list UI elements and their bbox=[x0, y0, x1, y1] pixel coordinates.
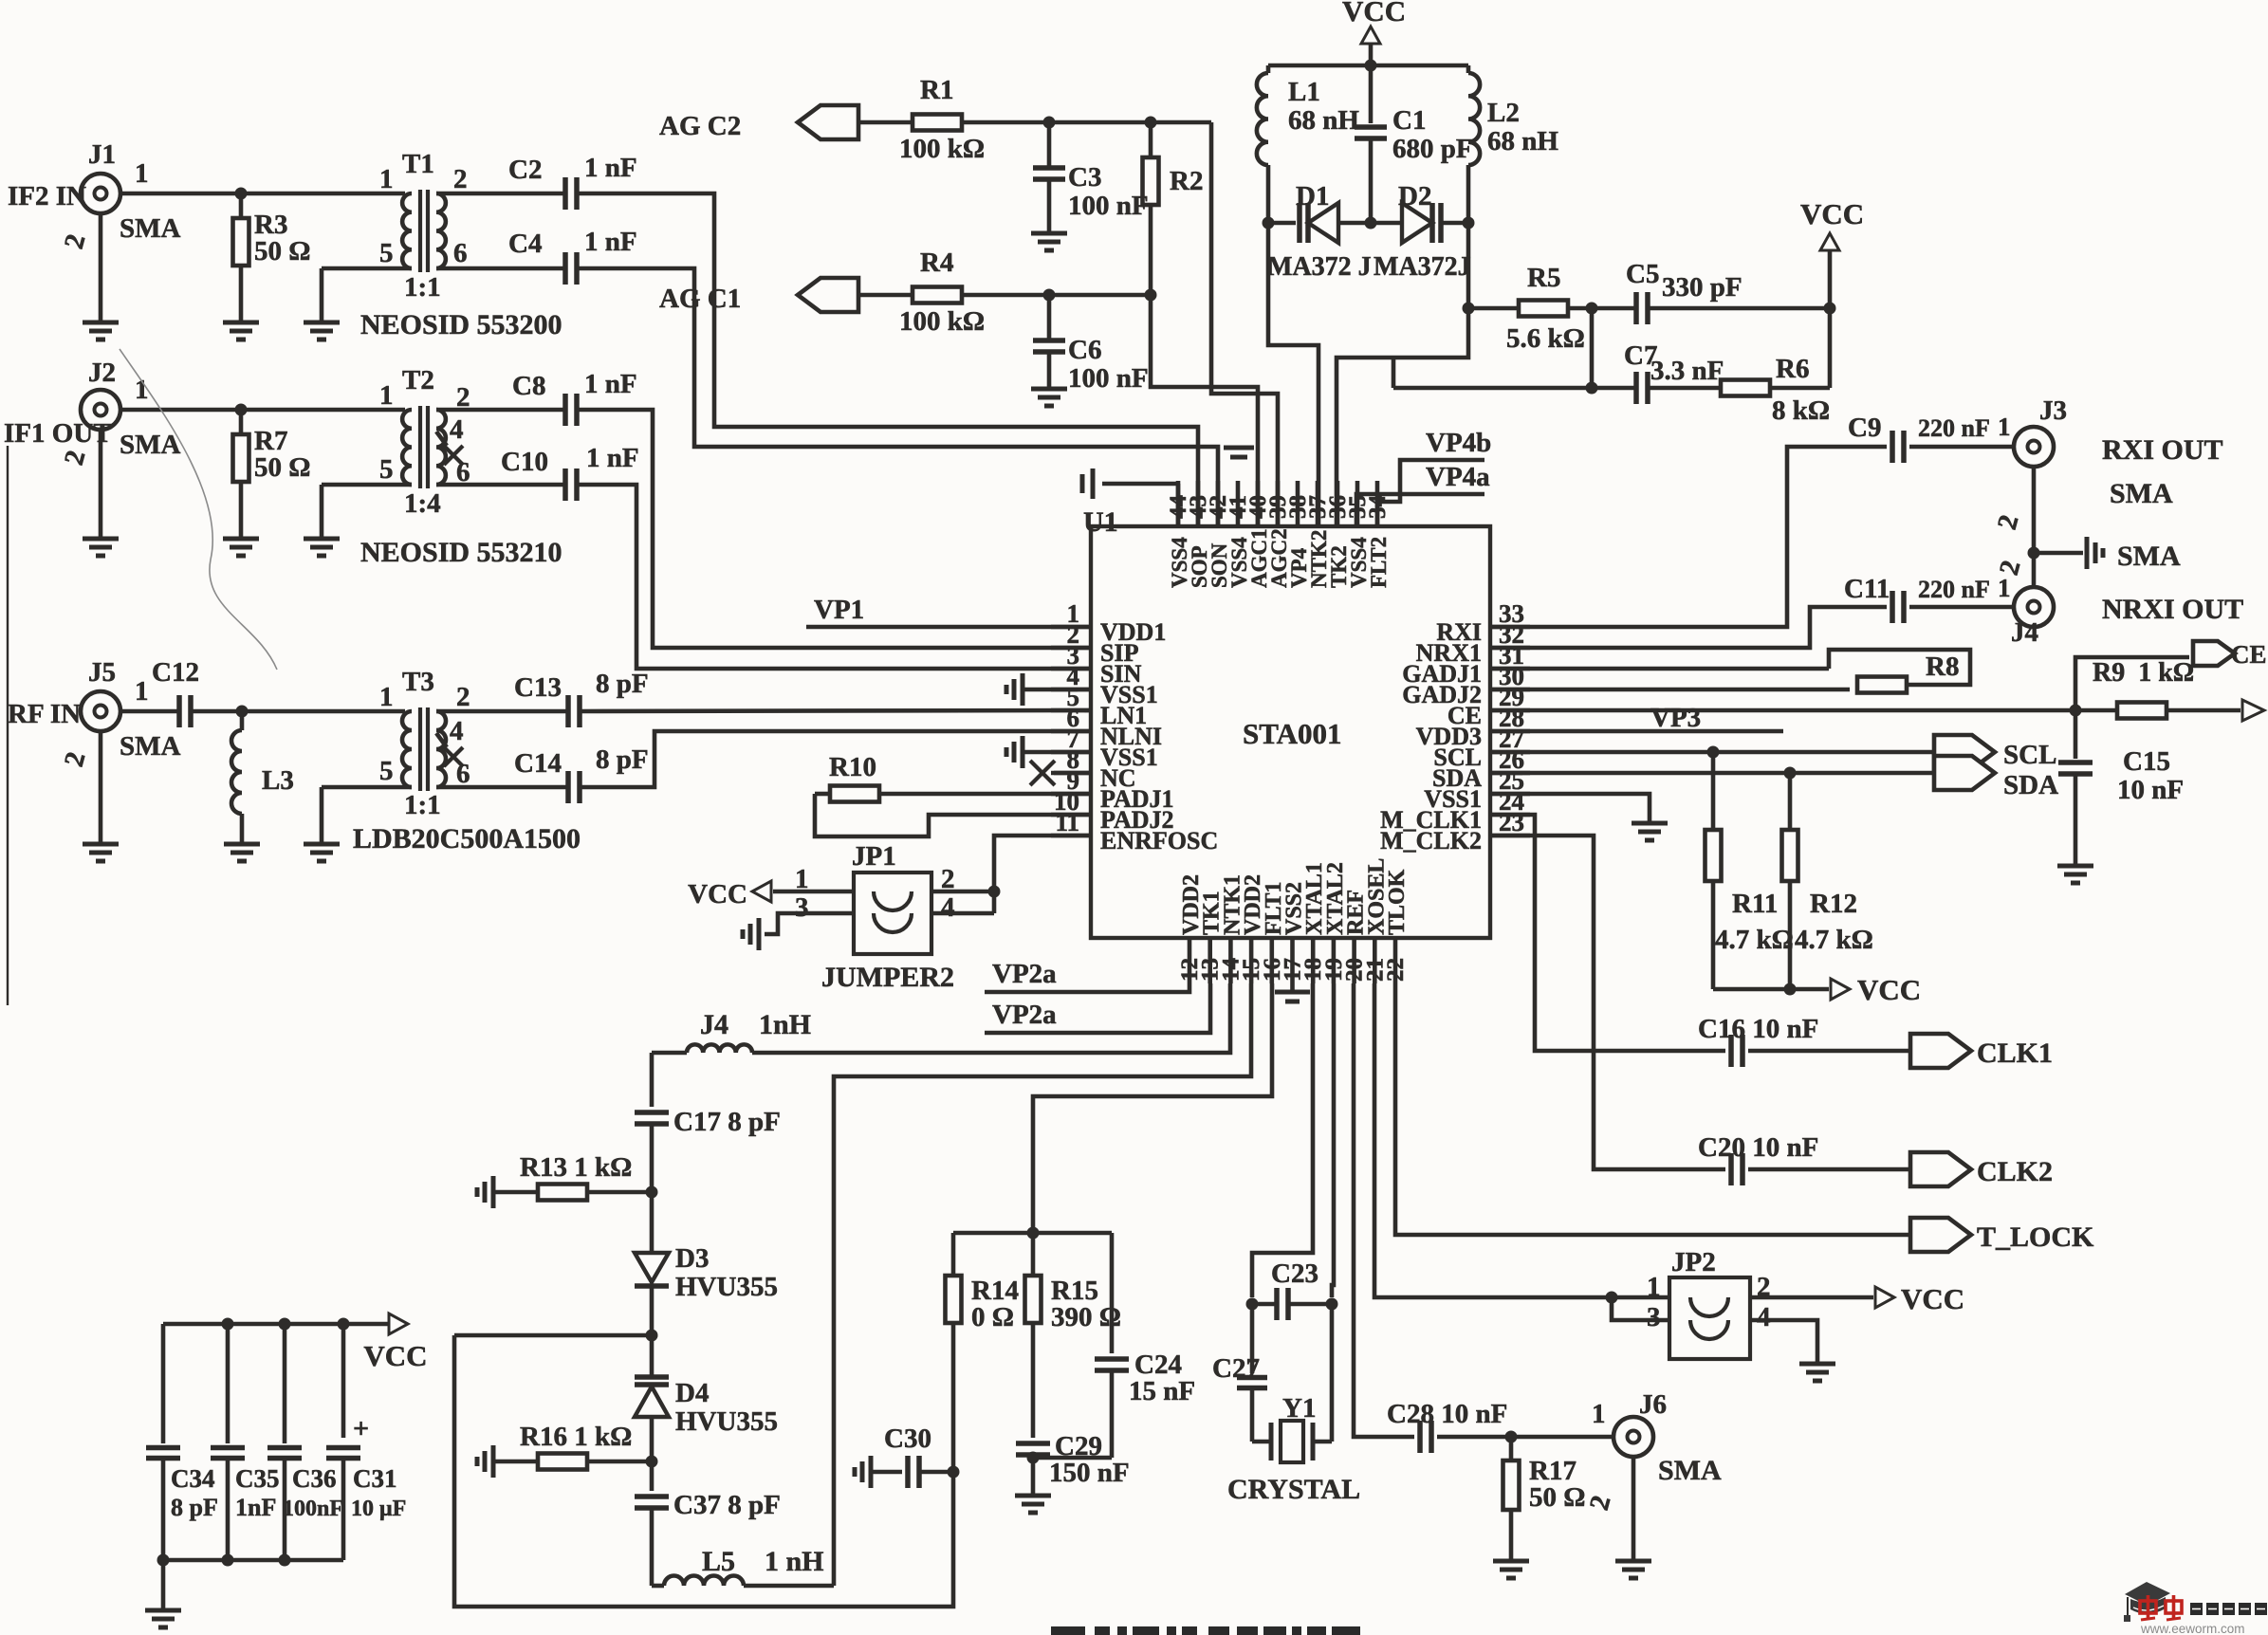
svg-text:www.eeworm.com: www.eeworm.com bbox=[2140, 1622, 2245, 1635]
wire bbox=[1909, 445, 2014, 450]
svg-text:JP1: JP1 bbox=[852, 841, 896, 872]
wire bbox=[436, 483, 565, 487]
U1 right pins 33-23 bbox=[1380, 599, 1530, 854]
svg-text:L2: L2 bbox=[1487, 98, 1520, 128]
svg-text:VCC: VCC bbox=[1342, 0, 1406, 28]
svg-text:L1: L1 bbox=[1288, 77, 1320, 107]
svg-text:2: 2 bbox=[453, 164, 468, 194]
svg-text:R5: R5 bbox=[1527, 263, 1560, 293]
svg-text:SMA: SMA bbox=[1658, 1455, 1722, 1486]
wire bbox=[322, 485, 412, 529]
diode D4 (HVU355 varactor) bbox=[635, 1335, 778, 1461]
svg-text:C1: C1 bbox=[1392, 105, 1426, 136]
wire bbox=[815, 794, 1091, 836]
jumper JP1 bbox=[795, 841, 955, 993]
resistor R14 (0 ohm) bbox=[946, 1233, 1019, 1472]
svg-text:1: 1 bbox=[379, 380, 394, 411]
wire bbox=[157, 1554, 344, 1567]
scan artifact curve bbox=[120, 349, 277, 670]
svg-text:J4: J4 bbox=[700, 1009, 728, 1040]
svg-text:220 nF: 220 nF bbox=[1918, 414, 1990, 442]
svg-text:L3: L3 bbox=[262, 765, 294, 796]
wire bbox=[1392, 358, 1396, 388]
svg-text:SMA: SMA bbox=[2117, 541, 2181, 572]
ground bbox=[743, 918, 759, 950]
svg-text:23: 23 bbox=[1499, 808, 1524, 836]
svg-text:FLT2: FLT2 bbox=[1367, 537, 1391, 588]
resistor R12 (4.7 k) bbox=[1782, 773, 1873, 989]
svg-text:100 kΩ: 100 kΩ bbox=[899, 134, 985, 164]
wire bbox=[191, 706, 405, 718]
wire bbox=[1268, 223, 1318, 526]
VCC arrow bbox=[1875, 1282, 1964, 1315]
resistor R8 bbox=[1490, 650, 1970, 693]
wire bbox=[1437, 1399, 1613, 1443]
small cap symbol above pin 41 bbox=[1224, 448, 1254, 457]
svg-text:4: 4 bbox=[450, 414, 464, 445]
svg-text:150 nF: 150 nF bbox=[1049, 1458, 1130, 1488]
svg-text:8 pF: 8 pF bbox=[596, 669, 649, 699]
svg-text:10 μF: 10 μF bbox=[351, 1497, 406, 1521]
capacitor C4 (1 nF) bbox=[508, 227, 637, 285]
wire NRX1 to C11 bbox=[1490, 607, 1887, 648]
VCC arrow bbox=[363, 1314, 427, 1372]
svg-text:3: 3 bbox=[1647, 1302, 1661, 1332]
svg-text:50 Ω: 50 Ω bbox=[1529, 1482, 1585, 1513]
svg-text:D4: D4 bbox=[675, 1378, 709, 1408]
svg-text:RXI OUT: RXI OUT bbox=[2102, 434, 2223, 466]
wire REF to C28 bbox=[1354, 983, 1414, 1437]
svg-text:R8: R8 bbox=[1926, 652, 1959, 682]
wire RXI to C9 bbox=[1490, 447, 1887, 627]
capacitor C34 (8 pF) bbox=[146, 1324, 218, 1560]
svg-text:5: 5 bbox=[379, 454, 394, 485]
ground bbox=[1799, 1354, 1835, 1381]
svg-text:MA372 J: MA372 J bbox=[1267, 252, 1372, 282]
svg-text:1nF: 1nF bbox=[235, 1494, 276, 1521]
ground bbox=[224, 835, 260, 861]
svg-text:R2: R2 bbox=[1170, 166, 1203, 196]
diode D1 (MA372J varactor) bbox=[1263, 181, 1372, 282]
wire SDA row bbox=[1490, 767, 1934, 780]
svg-text:C10: C10 bbox=[501, 447, 548, 477]
svg-text:IF2 IN: IF2 IN bbox=[8, 181, 86, 211]
svg-text:VCC: VCC bbox=[688, 879, 747, 909]
svg-text:C16 10 nF: C16 10 nF bbox=[1698, 1014, 1818, 1044]
svg-text:VP2a: VP2a bbox=[992, 959, 1057, 989]
capacitor C31 (10 uF, polarized) bbox=[326, 1324, 406, 1560]
ground bbox=[223, 529, 259, 556]
wire bbox=[1748, 1049, 1910, 1054]
wire bbox=[1632, 1457, 1636, 1552]
connector T_LOCK bbox=[1910, 1218, 2094, 1253]
wire bbox=[2167, 700, 2264, 721]
no-connect X on T3 pin 4 bbox=[436, 733, 463, 766]
svg-text:330 pF: 330 pF bbox=[1662, 272, 1742, 303]
svg-text:R13 1 kΩ: R13 1 kΩ bbox=[520, 1152, 632, 1183]
wire bbox=[161, 1560, 166, 1601]
svg-text:VP4a: VP4a bbox=[1426, 462, 1490, 492]
svg-text:C4: C4 bbox=[508, 229, 542, 259]
capacitor C2 (1 nF) bbox=[508, 153, 637, 210]
capacitor C20 (10 nF) bbox=[1698, 1132, 1818, 1185]
capacitor C16 (10 nF) bbox=[1698, 1014, 1818, 1067]
ground at pin 4 bbox=[1006, 673, 1091, 706]
ground at pin 25 bbox=[1490, 794, 1668, 840]
capacitor C24 (15 nF) bbox=[1095, 1233, 1195, 1458]
svg-text:SMA: SMA bbox=[120, 430, 181, 460]
wire XTAL2 branch bbox=[1332, 983, 1334, 1297]
svg-text:8 kΩ: 8 kΩ bbox=[1772, 395, 1830, 426]
inductor J4 (1 nH) bbox=[652, 983, 1230, 1053]
svg-text:AG C1: AG C1 bbox=[659, 284, 741, 314]
svg-text:4: 4 bbox=[450, 716, 464, 746]
wire M_CLK1 to C16 bbox=[1490, 815, 1725, 1051]
resistor R10 bbox=[815, 752, 1091, 802]
capacitor C15 (10 nF) bbox=[2058, 710, 2184, 856]
capacitor C29 (150 nF) bbox=[1016, 1431, 1130, 1488]
wire bbox=[962, 289, 1157, 302]
caption (clipped) bbox=[1051, 1626, 1360, 1635]
ground bbox=[2034, 537, 2103, 569]
svg-text:C14: C14 bbox=[514, 748, 562, 779]
svg-text:1: 1 bbox=[1647, 1272, 1661, 1302]
svg-text:VCC: VCC bbox=[1857, 973, 1921, 1006]
U1 bottom pins 12-22 bbox=[1177, 858, 1410, 983]
svg-text:1: 1 bbox=[1592, 1399, 1606, 1429]
connector J6 (SMA) bbox=[1584, 1389, 1722, 1514]
wire bbox=[953, 1227, 1112, 1240]
svg-text:1:4: 1:4 bbox=[404, 488, 441, 519]
svg-text:6: 6 bbox=[453, 238, 468, 268]
capacitor C9 (220 nF) bbox=[1848, 413, 2011, 463]
wire bbox=[322, 268, 412, 313]
svg-text:SMA: SMA bbox=[2110, 478, 2173, 509]
svg-text:4: 4 bbox=[941, 892, 955, 923]
svg-text:M_CLK2: M_CLK2 bbox=[1380, 827, 1482, 854]
svg-text:68 nH: 68 nH bbox=[1288, 105, 1359, 136]
ground bbox=[2057, 856, 2093, 883]
svg-text:C27: C27 bbox=[1212, 1353, 1260, 1384]
resistor R9 (1 k) bbox=[2093, 658, 2194, 719]
ground bbox=[1031, 379, 1067, 406]
wire M_CLK2 to C20 bbox=[1490, 836, 1725, 1169]
wire SCL row bbox=[1490, 746, 1934, 759]
capacitor C7 (3.3 nF) bbox=[1624, 340, 1724, 404]
svg-text:10 nF: 10 nF bbox=[2117, 775, 2184, 805]
capacitor C23 bbox=[1246, 1258, 1338, 1320]
svg-text:J5: J5 bbox=[88, 657, 116, 688]
svg-text:220 nF: 220 nF bbox=[1918, 576, 1990, 603]
svg-text:C9: C9 bbox=[1848, 413, 1881, 443]
svg-text:50 Ω: 50 Ω bbox=[254, 452, 310, 483]
connector J5 (SMA, RF IN) bbox=[8, 657, 181, 835]
ground bbox=[304, 309, 562, 340]
svg-text:T1: T1 bbox=[402, 149, 434, 179]
wire FLT1 branch bbox=[1033, 983, 1272, 1233]
capacitor C36 (100 nF) bbox=[267, 1324, 343, 1560]
svg-text:C12: C12 bbox=[152, 657, 199, 688]
svg-text:T_LOCK: T_LOCK bbox=[1977, 1222, 2094, 1253]
U1 top pins 44-34 bbox=[1166, 481, 1391, 588]
svg-text:J6: J6 bbox=[1639, 1389, 1667, 1420]
svg-text:C35: C35 bbox=[235, 1464, 280, 1493]
capacitor C27 bbox=[1212, 1304, 1267, 1442]
svg-text:100 nF: 100 nF bbox=[1068, 363, 1149, 394]
node VP1 bbox=[806, 595, 1091, 627]
wire bbox=[1648, 303, 1836, 315]
svg-text:VCC: VCC bbox=[1901, 1282, 1964, 1315]
svg-text:R9 1 kΩ: R9 1 kΩ bbox=[2093, 658, 2194, 688]
jumper JP2 bbox=[1647, 1247, 1771, 1359]
wire bbox=[1750, 1320, 1817, 1354]
wire bbox=[436, 709, 567, 714]
wire bbox=[581, 710, 1091, 711]
wire bbox=[1909, 541, 2181, 607]
wire bbox=[1268, 60, 1468, 72]
svg-text:+: + bbox=[353, 1413, 369, 1444]
transformer T1 bbox=[379, 149, 468, 303]
svg-text:3.3 nF: 3.3 nF bbox=[1650, 356, 1724, 386]
svg-text:CRYSTAL: CRYSTAL bbox=[1227, 1474, 1360, 1505]
inductor L1 (68 nH) bbox=[1257, 65, 1360, 223]
wire bbox=[436, 192, 565, 196]
wire bbox=[1748, 1167, 1910, 1172]
svg-text:100 kΩ: 100 kΩ bbox=[899, 306, 985, 337]
wire bbox=[436, 408, 565, 413]
resistor R2 bbox=[1143, 122, 1204, 295]
svg-text:R16 1 kΩ: R16 1 kΩ bbox=[520, 1422, 632, 1452]
svg-text:1 nH: 1 nH bbox=[765, 1546, 824, 1577]
svg-text:1 nF: 1 nF bbox=[584, 227, 637, 257]
resistor R16 (1 k) bbox=[477, 1422, 658, 1478]
svg-text:STA001: STA001 bbox=[1243, 717, 1342, 750]
svg-text:15 nF: 15 nF bbox=[1129, 1376, 1195, 1406]
svg-text:1: 1 bbox=[135, 676, 149, 707]
svg-text:11: 11 bbox=[1055, 808, 1079, 836]
svg-text:D3: D3 bbox=[675, 1243, 709, 1274]
svg-text:IF1 OUT: IF1 OUT bbox=[4, 418, 112, 449]
svg-text:8 pF: 8 pF bbox=[596, 744, 649, 775]
svg-text:C13: C13 bbox=[514, 672, 562, 703]
svg-text:1nH: 1nH bbox=[759, 1009, 811, 1040]
wire bbox=[1337, 223, 1475, 526]
wire bbox=[650, 1053, 655, 1107]
svg-text:2: 2 bbox=[456, 682, 470, 712]
capacitor C28 (10 nF) bbox=[1387, 1399, 1507, 1453]
svg-text:4: 4 bbox=[1757, 1302, 1771, 1332]
svg-text:100 nF: 100 nF bbox=[1068, 191, 1149, 221]
ground bbox=[304, 529, 562, 568]
connector CE bbox=[2075, 640, 2267, 710]
svg-text:JP2: JP2 bbox=[1671, 1247, 1716, 1277]
VCC arrow left bbox=[688, 879, 854, 909]
svg-text:C3: C3 bbox=[1068, 162, 1101, 193]
svg-text:R12: R12 bbox=[1810, 889, 1857, 919]
svg-text:5: 5 bbox=[379, 238, 394, 268]
wire bbox=[577, 268, 1218, 526]
svg-text:ENRFOSC: ENRFOSC bbox=[1100, 827, 1218, 854]
svg-text:NRXI OUT: NRXI OUT bbox=[2102, 594, 2243, 625]
wire big loop bbox=[454, 1335, 953, 1607]
wire bbox=[1568, 303, 1635, 389]
VCC arrow bbox=[1831, 973, 1921, 1006]
svg-text:CLK2: CLK2 bbox=[1977, 1156, 2053, 1187]
node VP2a bbox=[985, 959, 1189, 992]
svg-text:SMA: SMA bbox=[120, 213, 181, 244]
wire bbox=[1211, 122, 1278, 526]
capacitor C14 (8 pF) bbox=[514, 744, 649, 803]
capacitor C35 (1 nF) bbox=[211, 1324, 280, 1560]
wire bbox=[1648, 386, 1721, 391]
VCC rail bbox=[1342, 0, 1406, 65]
capacitor C11 (220 nF) bbox=[1844, 574, 2011, 623]
svg-text:T3: T3 bbox=[402, 667, 434, 697]
resistor R5 (5.6 k) bbox=[1468, 263, 1585, 354]
diode D2 (MA372J varactor) bbox=[1365, 181, 1475, 282]
svg-text:VP1: VP1 bbox=[814, 595, 864, 625]
wire bbox=[577, 410, 1091, 648]
VCC arrow bbox=[1800, 197, 1864, 308]
svg-text:R4: R4 bbox=[920, 248, 953, 278]
wire bbox=[931, 891, 994, 913]
capacitor C12 bbox=[152, 657, 199, 727]
ground bbox=[83, 529, 119, 556]
svg-text:5: 5 bbox=[379, 756, 394, 786]
connector CLK2 bbox=[1910, 1152, 2053, 1187]
svg-text:C31: C31 bbox=[353, 1464, 397, 1493]
wire bbox=[581, 731, 1091, 787]
wire pin 11 to JP1 bbox=[988, 836, 1092, 898]
wire bbox=[1750, 1295, 1873, 1300]
resistor R3 bbox=[233, 193, 311, 313]
U1 left pins 1-11 bbox=[1051, 599, 1218, 854]
svg-text:J3: J3 bbox=[2039, 395, 2067, 426]
connector AG C2 bbox=[659, 105, 913, 141]
wire bbox=[322, 787, 412, 835]
resistor R7 bbox=[233, 410, 311, 529]
wire bbox=[577, 193, 1198, 526]
svg-text:1: 1 bbox=[1998, 413, 2011, 441]
ground bbox=[304, 823, 581, 861]
svg-text:1: 1 bbox=[379, 682, 394, 712]
ground bbox=[1493, 1552, 1529, 1578]
svg-text:5.6 kΩ: 5.6 kΩ bbox=[1506, 323, 1585, 354]
svg-text:LDB20C500A1500: LDB20C500A1500 bbox=[353, 823, 581, 854]
ground bbox=[83, 835, 119, 861]
svg-text:J1: J1 bbox=[88, 139, 116, 170]
wire bbox=[454, 1330, 658, 1342]
svg-text:1:1: 1:1 bbox=[404, 790, 441, 820]
wire bbox=[931, 890, 994, 894]
wire CE row bbox=[1490, 705, 2117, 717]
svg-text:1: 1 bbox=[135, 375, 149, 405]
connector AG C1 bbox=[659, 278, 913, 314]
svg-text:HVU355: HVU355 bbox=[675, 1272, 778, 1302]
svg-text:R1: R1 bbox=[920, 75, 953, 105]
svg-text:C8: C8 bbox=[512, 371, 545, 401]
capacitor C13 (8 pF) bbox=[514, 669, 649, 727]
connector J4 (SMA, NRXI OUT) bbox=[2011, 587, 2243, 648]
wire bbox=[436, 785, 567, 790]
resistor R6 (8 k) bbox=[1721, 354, 1830, 426]
resistor R11 (4.7 k) bbox=[1706, 752, 1794, 989]
svg-text:NEOSID 553210: NEOSID 553210 bbox=[360, 537, 562, 568]
ground bbox=[145, 1601, 181, 1627]
svg-text:SMA: SMA bbox=[120, 731, 181, 762]
connector CLK1 bbox=[1910, 1034, 2053, 1069]
ground at pin 7 bbox=[1006, 736, 1091, 768]
capacitor C8 (1 nF) bbox=[512, 369, 637, 426]
inductor L5 (1 nH) bbox=[652, 1546, 834, 1586]
node VP4b bbox=[1377, 428, 1491, 526]
svg-text:C23: C23 bbox=[1271, 1258, 1318, 1289]
svg-text:C17 8 pF: C17 8 pF bbox=[673, 1107, 781, 1137]
svg-text:4.7 kΩ: 4.7 kΩ bbox=[1795, 925, 1873, 955]
wire bbox=[1612, 1297, 1669, 1320]
ground bbox=[1615, 1552, 1651, 1578]
svg-text:1 nF: 1 nF bbox=[586, 443, 639, 473]
svg-text:MA372J: MA372J bbox=[1374, 252, 1471, 282]
svg-text:VP4b: VP4b bbox=[1426, 428, 1491, 458]
svg-text:T2: T2 bbox=[402, 365, 434, 395]
svg-text:C28 10 nF: C28 10 nF bbox=[1387, 1399, 1507, 1429]
wire XTAL1 branch bbox=[1252, 983, 1313, 1297]
svg-text:D2: D2 bbox=[1398, 181, 1431, 211]
VCC rail bbox=[163, 1318, 389, 1331]
svg-text:C5: C5 bbox=[1626, 259, 1659, 289]
svg-text:VCC: VCC bbox=[363, 1339, 427, 1372]
svg-text:CE: CE bbox=[2231, 640, 2267, 669]
svg-text:68 nH: 68 nH bbox=[1487, 126, 1558, 156]
capacitor C6 (100 nF) bbox=[1033, 295, 1149, 394]
svg-text:TLOK: TLOK bbox=[1385, 869, 1410, 935]
node VP3 bbox=[1490, 703, 1783, 733]
svg-text:50 Ω: 50 Ω bbox=[254, 236, 310, 266]
svg-text:RF IN: RF IN bbox=[8, 699, 81, 729]
svg-text:J4: J4 bbox=[2011, 617, 2038, 648]
svg-text:C36: C36 bbox=[292, 1464, 337, 1493]
svg-text:R6: R6 bbox=[1776, 354, 1809, 384]
transformer T3 bbox=[379, 667, 470, 820]
IC U1 STA001 body bbox=[1091, 526, 1490, 938]
svg-text:680 pF: 680 pF bbox=[1392, 134, 1473, 164]
no-connect X pin 8 bbox=[1030, 761, 1091, 785]
inductor L2 (68 nH) bbox=[1468, 65, 1558, 223]
connector J3 (SMA, RXI OUT) bbox=[2014, 395, 2223, 509]
wire TLOK branch bbox=[1395, 983, 1910, 1235]
svg-text:C15: C15 bbox=[2123, 746, 2170, 777]
svg-text:NEOSID 553200: NEOSID 553200 bbox=[360, 309, 562, 340]
svg-text:1: 1 bbox=[379, 164, 394, 194]
wire bbox=[235, 188, 406, 200]
wire bbox=[1151, 295, 1258, 526]
resistor R15 (390 ohm) bbox=[1025, 1233, 1121, 1438]
svg-text:C20 10 nF: C20 10 nF bbox=[1698, 1132, 1818, 1163]
svg-text:C34: C34 bbox=[171, 1464, 215, 1493]
svg-text:JUMPER2: JUMPER2 bbox=[821, 962, 954, 993]
node VP4a bbox=[1356, 462, 1490, 526]
capacitor C30 bbox=[855, 1424, 960, 1488]
capacitor C3 (100 nF) bbox=[1033, 122, 1149, 224]
svg-text:1: 1 bbox=[1998, 574, 2011, 602]
svg-text:3: 3 bbox=[795, 892, 809, 923]
svg-text:SCL: SCL bbox=[2003, 740, 2056, 770]
wire bbox=[577, 485, 1091, 669]
ground bbox=[1031, 224, 1067, 250]
svg-text:J2: J2 bbox=[88, 358, 116, 388]
svg-text:R10: R10 bbox=[829, 752, 876, 782]
